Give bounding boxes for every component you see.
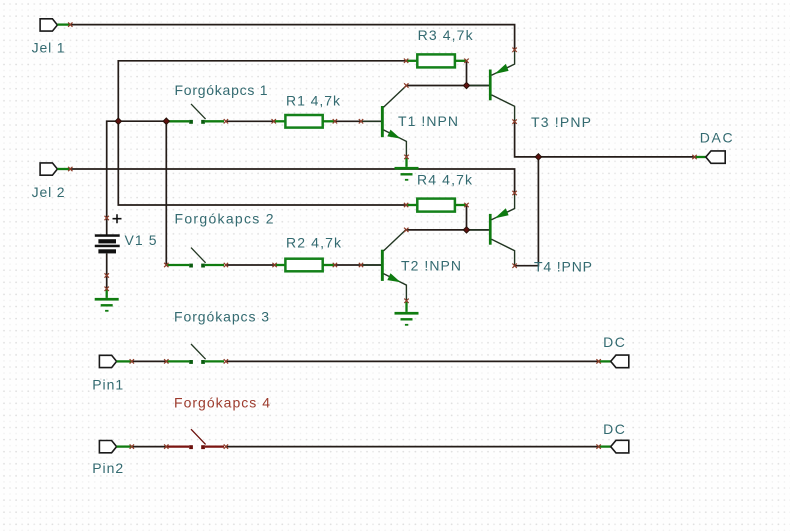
battery V1 (95, 214, 122, 253)
junction node rail A (115, 118, 121, 124)
pin mark T1 base (359, 119, 363, 123)
pin mark T3 emitter (512, 48, 516, 52)
pin mark Jel1 (68, 22, 72, 26)
pin mark R3 left (404, 59, 408, 63)
wire Pin2 to switch4 (132, 446, 167, 448)
svg-text:Forgókapcs 4: Forgókapcs 4 (174, 395, 270, 411)
switch Forgókapcs 4 (166, 429, 224, 449)
wire R2 to T2 base (335, 264, 381, 266)
svg-text:T1 !NPN: T1 !NPN (398, 113, 458, 129)
pin mark T3 collector (512, 119, 516, 123)
pin mark DAC (692, 155, 696, 159)
pin mark switch3 right (224, 359, 228, 363)
pin mark R2 left (272, 263, 276, 267)
junction node rail B (163, 118, 169, 124)
connector Pin1 (99, 355, 131, 367)
pin mark R1 left (272, 119, 276, 123)
switch Forgókapcs 1 (166, 104, 224, 124)
pin mark switch2 right (224, 263, 228, 267)
pin mark Pin1 (130, 359, 134, 363)
wire R1 to T1 base (335, 120, 381, 122)
connector Jel1 (40, 19, 70, 31)
transistor T3 (467, 50, 515, 122)
transistor T4 (467, 193, 515, 266)
wire node rail down to R4 (118, 121, 406, 205)
pin mark DC upper (596, 359, 600, 363)
wire DAC node down to T4 collector (515, 157, 539, 266)
wire node rail to battery (107, 121, 167, 234)
svg-text:Forgókapcs 3: Forgókapcs 3 (174, 309, 269, 325)
svg-text:Pin2: Pin2 (92, 460, 123, 476)
switch Forgókapcs 2 (166, 248, 224, 268)
svg-text:R4 4,7k: R4 4,7k (417, 172, 473, 188)
wire switch3 to DC (226, 360, 599, 362)
wire node rail down to switch 2 (165, 121, 167, 265)
pin mark battery minus (105, 273, 109, 277)
pin mark T1 emitter (404, 155, 408, 159)
svg-text:DC: DC (603, 334, 626, 350)
svg-text:T3 !PNP: T3 !PNP (531, 114, 591, 130)
pin mark R4 left (404, 203, 408, 207)
connector Jel2 (40, 163, 70, 175)
pin mark T2 emitter (404, 299, 408, 303)
pin mark DC lower (596, 444, 600, 448)
connector DC upper (599, 355, 629, 368)
svg-text:Jel 2: Jel 2 (32, 184, 65, 200)
svg-text:R3 4,7k: R3 4,7k (418, 27, 474, 43)
pin mark R1 right (333, 119, 337, 123)
pin mark R4 right (464, 203, 468, 207)
pin mark battery ground (105, 287, 109, 291)
pin mark Jel2 (68, 167, 72, 171)
pin mark switch1 right (224, 119, 228, 123)
connector DC lower (599, 440, 629, 453)
transistor T1 (361, 86, 406, 157)
pin mark T4 collector (512, 264, 516, 268)
pin mark T2 collector (404, 228, 408, 232)
svg-text:DC: DC (603, 421, 626, 437)
wire R4 right down to T4 base node (466, 205, 468, 230)
svg-text:R1 4,7k: R1 4,7k (286, 93, 341, 109)
wire battery minus to ground (106, 254, 108, 290)
svg-text:Jel 1: Jel 1 (32, 40, 65, 56)
svg-text:DAC: DAC (700, 129, 734, 145)
svg-text:T2 !NPN: T2 !NPN (401, 257, 461, 273)
switch Forgókapcs 3 (166, 344, 224, 364)
pin mark R3 right (464, 59, 468, 63)
pin mark T4 emitter (512, 191, 516, 195)
svg-text:Forgókapcs 2: Forgókapcs 2 (175, 211, 274, 227)
wire T3 collector to DAC (515, 122, 695, 157)
wire Pin1 to switch3 (132, 360, 167, 362)
svg-text:Forgókapcs 1: Forgókapcs 1 (175, 82, 268, 98)
resistor R3 (406, 54, 466, 67)
ground T1 emitter (395, 158, 419, 181)
pin mark T2 base (359, 263, 363, 267)
ground battery (95, 290, 119, 312)
wire T1 collector to T3 base (406, 85, 489, 87)
svg-text:V1 5: V1 5 (125, 232, 157, 248)
svg-text:R2 4,7k: R2 4,7k (286, 235, 342, 251)
pin mark T1 collector (404, 83, 408, 87)
wire T2 collector to T4 base (406, 229, 489, 231)
pin mark battery plus (105, 216, 109, 220)
resistor R1 (274, 115, 335, 128)
resistor R4 (406, 199, 466, 212)
junction T4 base node (463, 227, 469, 233)
pin mark switch4 right (224, 444, 228, 448)
pin mark Pin2 (130, 444, 134, 448)
ground T2 emitter (395, 302, 419, 326)
connector DAC (695, 151, 726, 163)
wire switch4 to DC (226, 446, 599, 448)
pin mark switch4 left (164, 444, 168, 448)
pin mark switch2 left (164, 263, 168, 267)
junction T3 base node (463, 82, 469, 88)
wire switch1 to R1 (226, 120, 274, 122)
svg-text:Pin1: Pin1 (92, 377, 123, 393)
connector Pin2 (99, 441, 131, 453)
junction DAC node (535, 154, 541, 160)
svg-text:T4 !PNP: T4 !PNP (534, 259, 592, 275)
wire Jel1 to T3 emitter (70, 25, 514, 50)
wire node base rail up to R3 (118, 61, 406, 121)
wire Jel2 to T4 emitter (70, 169, 514, 193)
transistor T2 (361, 229, 406, 300)
pin mark R2 right (333, 263, 337, 267)
resistor R2 (275, 259, 335, 272)
wire R3 right down to node A (466, 61, 468, 86)
pin mark switch3 left (164, 359, 168, 363)
wire switch2 to R2 (226, 264, 275, 266)
